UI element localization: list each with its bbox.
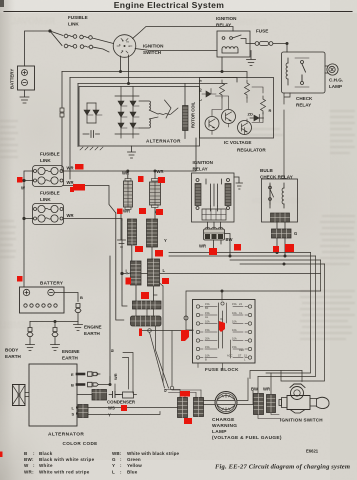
earth branch wire	[30, 322, 78, 328]
wire L net (y273.5)	[142, 273, 321, 275]
IC voltage regulator box	[200, 78, 274, 139]
svg-text:ACC: ACC	[227, 354, 233, 358]
connector E	[178, 398, 188, 418]
fusible link F2a	[50, 31, 77, 48]
svg-text:IC VOLTAGE: IC VOLTAGE	[224, 140, 251, 145]
svg-text:IG: IG	[199, 88, 203, 92]
svg-text:FUSIBLE: FUSIBLE	[40, 191, 60, 196]
ghost print-through texture (decorative)	[0, 16, 300, 330]
wire B bottom down	[154, 208, 156, 220]
svg-text:S: S	[72, 412, 75, 417]
wire L junction to connector G	[122, 272, 131, 275]
svg-text:E: E	[71, 372, 74, 377]
svg-text:Green: Green	[127, 457, 141, 462]
wires ignition relay connector to bus	[214, 234, 231, 257]
svg-text:EARTH: EARTH	[5, 354, 22, 359]
svg-text:B: B	[205, 358, 207, 362]
svg-text:Y: Y	[108, 413, 111, 418]
header rule	[4, 11, 352, 13]
red mark (WR lower FL1, flag)	[70, 184, 85, 192]
svg-text:15A: 15A	[205, 302, 210, 306]
red mark (conn E top)	[180, 391, 190, 397]
red mark (BW bus)	[234, 244, 241, 251]
svg-text:10A: 10A	[232, 320, 237, 324]
wire lamp right to riser	[237, 378, 253, 405]
battery B1 (top-left)	[18, 66, 35, 90]
svg-text:AL: AL	[205, 315, 209, 319]
inline connector (body earth)	[27, 328, 33, 337]
svg-text:BODY: BODY	[5, 348, 18, 353]
lamp L2 charge warning	[215, 392, 237, 414]
centre rails	[219, 303, 223, 348]
svg-text:White with black stripe: White with black stripe	[127, 451, 180, 456]
svg-text:IGNITION SWITCH: IGNITION SWITCH	[280, 418, 323, 423]
alternator box (top)	[79, 87, 200, 147]
connector I (BW)	[254, 394, 264, 415]
red mark (fuse block left, arrow)	[181, 330, 189, 341]
pulley	[25, 393, 29, 397]
bus wire A (y71)	[62, 72, 247, 79]
bus wire L2 (y256)	[169, 255, 316, 257]
svg-text:BATTERY: BATTERY	[40, 281, 63, 286]
bus wire B (y77)	[70, 78, 237, 83]
regulator internal wires	[212, 87, 263, 135]
wire WS	[88, 407, 178, 409]
red mark (conn A bottom)	[139, 208, 146, 214]
svg-text:CHECK: CHECK	[296, 96, 313, 101]
strip connector (below G/H)	[133, 301, 162, 309]
red mark (below strip 2)	[139, 329, 142, 337]
svg-text:WB:: WB:	[112, 451, 122, 456]
wires under fuse block	[198, 364, 223, 370]
wire H to fuse-area vertical	[162, 286, 164, 382]
red mark (fuse block inner, slanted)	[219, 321, 225, 332]
svg-text:ZD: ZD	[248, 112, 253, 117]
ignition switch S1 (physical, bottom right)	[279, 384, 329, 413]
color code table left	[24, 451, 95, 474]
wire L riser (x122)	[122, 220, 127, 306]
wire WR3 (FL2 to connector)	[63, 219, 122, 221]
red mark (wires, flag)	[141, 292, 149, 299]
wire switch to ignition relay (IG)	[133, 27, 234, 39]
svg-text:REMOVAL: REMOVAL	[10, 16, 55, 26]
svg-text:20A: 20A	[205, 337, 210, 341]
svg-text:RELAY: RELAY	[296, 103, 311, 108]
svg-text:RELAY: RELAY	[216, 23, 231, 28]
ignition relay RY1 (top)	[217, 31, 250, 57]
svg-text::: :	[33, 451, 35, 456]
wire WR1 (FL1 to regulator)	[63, 138, 196, 171]
ground (ignition relay detail)	[234, 177, 243, 189]
svg-text:IGNITION: IGNITION	[216, 16, 237, 21]
ground (engine earth 2)	[51, 345, 60, 351]
condenser assembly	[92, 384, 137, 400]
svg-text:IGNITION: IGNITION	[193, 160, 214, 165]
red mark (left of battery)	[17, 276, 23, 282]
svg-text:E6621: E6621	[306, 449, 319, 454]
wire F to lamp	[204, 401, 216, 405]
svg-text:W: W	[24, 463, 29, 468]
corner wires (to alternator leads)	[123, 353, 134, 394]
red mark (conn B bottom)	[156, 209, 163, 215]
inline connector (battery earth)	[75, 304, 81, 313]
wire W down to battery	[23, 181, 25, 288]
regulator resistor R2	[245, 80, 250, 98]
ignition relay RY1 detail box	[192, 173, 235, 222]
bus wire C (y83)	[78, 83, 227, 85]
svg-text:EARTH: EARTH	[62, 356, 79, 361]
svg-text:15A: 15A	[205, 311, 210, 315]
svg-text:LINK: LINK	[40, 158, 51, 163]
inline connector (E lead)	[88, 372, 101, 377]
svg-text:IG: IG	[127, 42, 130, 44]
fusible link F1a	[50, 31, 77, 38]
svg-text::: :	[33, 463, 35, 468]
terminal circle (below strip 2)	[148, 329, 152, 333]
check relay RY2	[282, 52, 326, 93]
connector H (L)	[148, 259, 160, 286]
connector J (WR)	[267, 395, 276, 413]
svg-text:BATTERY: BATTERY	[10, 69, 15, 89]
chassis hatch on alternator bottom	[80, 147, 103, 150]
svg-text:BW:: BW:	[24, 457, 34, 462]
svg-text:WR: WR	[122, 171, 129, 176]
ground (alternator)	[128, 146, 136, 158]
wires above I/J	[258, 373, 271, 395]
node (fuse-checkrelay)	[286, 42, 288, 44]
svg-text:WARNING: WARNING	[212, 423, 237, 429]
svg-text:L: L	[112, 469, 115, 474]
rotor coil	[183, 84, 189, 139]
wires G-connector to bus	[277, 238, 285, 256]
svg-text:G: G	[294, 231, 297, 236]
svg-text:RELAY: RELAY	[193, 167, 208, 172]
bus wire L1 (y252.5)	[169, 252, 311, 254]
bulb check relay RY3	[262, 179, 298, 222]
wire B lead to riser	[98, 377, 110, 385]
svg-text:White: White	[39, 463, 53, 468]
red mark (G conn right)	[285, 244, 294, 252]
svg-text:LINK: LINK	[68, 22, 79, 27]
svg-text:CONDENSER: CONDENSER	[107, 400, 136, 405]
wire box to condenser	[77, 394, 92, 396]
svg-text:B: B	[71, 383, 74, 388]
red mark (WS condenser)	[121, 405, 127, 411]
svg-text:Y: Y	[112, 463, 115, 468]
svg-text:G: G	[112, 457, 116, 462]
svg-text:ROTOR COIL: ROTOR COIL	[191, 101, 196, 128]
svg-text:WR: WR	[113, 373, 118, 380]
svg-text:WR: WR	[199, 244, 206, 249]
svg-text:Engine Electrical System: Engine Electrical System	[114, 0, 225, 10]
label CHARGE WARNING LAMP	[212, 417, 282, 441]
red mark (diagonal wire end)	[117, 209, 123, 215]
fusible link block FL2	[33, 204, 64, 225]
svg-text:C.H.G.: C.H.G.	[329, 78, 343, 83]
terminal E	[77, 373, 84, 376]
ground (connector area)	[118, 209, 126, 247]
svg-text:B: B	[80, 295, 83, 300]
wires above E/F	[180, 390, 201, 398]
red mark (conn A top)	[138, 176, 144, 182]
wire battery- to earth node	[54, 293, 78, 302]
svg-text:LAMP: LAMP	[212, 429, 227, 435]
svg-text:BF: BF	[205, 306, 209, 310]
svg-text:FUSIBLE: FUSIBLE	[68, 15, 88, 20]
svg-text:DESCRIPTION: DESCRIPTION	[252, 198, 300, 205]
inline connector (engine earth 2)	[52, 328, 58, 337]
svg-text:L: L	[126, 269, 129, 274]
wires G,H down to strip connector	[136, 285, 154, 302]
wire WR riser (x116)	[116, 213, 124, 320]
svg-text:ENGINE: ENGINE	[62, 349, 80, 354]
inline connector (on x62 wire)	[60, 108, 64, 117]
wire loop at switch top	[281, 371, 302, 382]
transistor T1	[205, 117, 219, 131]
svg-text:W: W	[21, 186, 25, 191]
wire WR2 (FL1 lower)	[63, 186, 116, 214]
fusible link F1b	[80, 35, 114, 43]
svg-text:15A: 15A	[232, 345, 237, 349]
wire (fuse block side drop x172)	[171, 331, 173, 386]
wire check relay down to bulb check relay	[284, 93, 290, 179]
terminal L	[77, 407, 81, 409]
regulator resistor R3	[261, 96, 266, 114]
svg-text:ALTERNATOR: ALTERNATOR	[48, 432, 84, 438]
svg-text:15A: 15A	[205, 345, 210, 349]
inline connector (x186)	[184, 316, 188, 320]
wire B top stub	[154, 171, 156, 179]
wire Y	[88, 412, 160, 415]
svg-text:R: R	[269, 108, 272, 113]
connector F	[194, 398, 204, 417]
transistor T3	[238, 121, 252, 135]
ignition switch S1 (rotary, top)	[113, 35, 136, 58]
ground (battery top)	[20, 90, 29, 103]
svg-text:ALTERNATOR: ALTERNATOR	[146, 139, 181, 144]
svg-text:L: L	[199, 99, 203, 101]
fuse value labels (left column)	[205, 302, 247, 362]
lamp CHG (charge warning)	[327, 64, 338, 75]
svg-text:FUSIBLE: FUSIBLE	[40, 152, 60, 157]
red mark (WR bus)	[209, 248, 217, 255]
svg-text:Black with white stripe: Black with white stripe	[39, 457, 95, 462]
connector C	[128, 219, 137, 245]
wires below strip connector (diagonals)	[150, 295, 169, 388]
svg-text:L: L	[163, 268, 166, 273]
svg-text:WS: WS	[108, 406, 115, 411]
inline connector (B lead)	[88, 382, 99, 387]
diode pair (neutral)	[84, 103, 102, 123]
svg-text:Y: Y	[164, 238, 167, 243]
svg-text:15A: 15A	[205, 328, 210, 332]
zener ZD	[250, 115, 264, 122]
svg-text:White with red stripe: White with red stripe	[39, 469, 90, 474]
svg-text:15A: 15A	[232, 302, 237, 306]
wire FL1 left to W node	[24, 171, 34, 181]
bus junction dots	[212, 251, 214, 253]
svg-text:BW: BW	[251, 387, 258, 392]
svg-text:WR: WR	[67, 166, 74, 171]
terminal B	[77, 383, 84, 386]
stator winding (3-phase Y)	[139, 100, 178, 128]
rectifier diode bridge	[115, 87, 139, 139]
svg-text:EARTH: EARTH	[84, 331, 101, 336]
wire B vertical (x110)	[109, 256, 111, 382]
svg-text:Fig. EE-27 Circuit diagram of: Fig. EE-27 Circuit diagram of charging s…	[215, 464, 350, 471]
transistor T2	[222, 110, 236, 124]
wire (y291 to fuse block)	[142, 291, 321, 331]
svg-text:ST: ST	[238, 354, 242, 358]
svg-text:10A: 10A	[232, 311, 237, 315]
svg-text:FUSE BLOCK: FUSE BLOCK	[205, 367, 239, 372]
svg-text:LINK: LINK	[40, 197, 51, 202]
svg-text:SWITCH: SWITCH	[143, 50, 162, 55]
connector (below ignition relay)	[204, 222, 225, 240]
connector D	[147, 219, 158, 247]
fusible link block FL1	[33, 166, 64, 187]
terminal S	[77, 413, 81, 415]
bus wire L4 (y264)	[240, 263, 325, 265]
node junction J1	[49, 30, 51, 32]
red mark (WR top FL1)	[75, 164, 84, 170]
svg-text:CHARGE: CHARGE	[212, 417, 235, 423]
red mark (conn D bottom)	[155, 250, 163, 257]
capacitor (alternator noise)	[83, 131, 100, 138]
svg-text:Black: Black	[39, 451, 53, 456]
svg-text:G: G	[163, 389, 168, 392]
svg-text:10A: 10A	[205, 320, 210, 324]
connector A (WR)	[124, 179, 133, 210]
red mark (conn E bottom)	[184, 418, 192, 424]
svg-text:WR: WR	[67, 180, 74, 185]
wire D to H	[151, 247, 153, 259]
svg-text:WR: WR	[263, 387, 270, 392]
svg-text:BULB: BULB	[260, 168, 273, 173]
svg-text:B: B	[110, 349, 115, 352]
node dots on buses	[119, 70, 121, 72]
svg-text:WR: WR	[67, 213, 74, 218]
red mark (conn C bottom)	[135, 246, 143, 252]
red mark (conn B top)	[158, 177, 165, 183]
switch drop wires	[121, 55, 129, 84]
fusible link F2b	[80, 45, 109, 52]
right column fuses	[233, 305, 252, 359]
red mark (L junction)	[126, 278, 132, 285]
red mark (left of FL1)	[17, 177, 23, 183]
svg-text:WR:: WR:	[24, 469, 34, 474]
node L junction	[121, 272, 123, 274]
alternator (lower unit)	[13, 364, 78, 426]
right-side drop wires	[258, 253, 325, 382]
svg-text:COLOR CODE: COLOR CODE	[63, 441, 98, 446]
svg-text:WR: WR	[157, 169, 164, 174]
ground (ignition relay)	[247, 51, 256, 66]
wire check relay to CHG lamp	[325, 66, 328, 73]
strip connector 2	[131, 316, 162, 326]
wire switch to relay coil	[135, 49, 217, 51]
fuse (top)	[255, 41, 273, 45]
svg-text:ENGINE: ENGINE	[84, 325, 102, 330]
wire bulb check relay to G connector	[277, 222, 285, 229]
wire C to G	[131, 245, 133, 261]
connector G (L)	[131, 261, 142, 285]
svg-text:CHECK RELAY: CHECK RELAY	[260, 175, 293, 180]
wire relay to fuse	[250, 43, 255, 45]
node	[221, 290, 223, 292]
wire battery+ to junction	[25, 31, 51, 66]
svg-text:IGNITION: IGNITION	[143, 44, 164, 49]
connector (L/S leads)	[78, 405, 88, 418]
svg-text:CL: CL	[239, 311, 243, 315]
wire A top stub	[127, 171, 129, 179]
wires between strips	[136, 309, 154, 316]
battery B1 (lower)	[20, 287, 65, 313]
fuse block FB	[193, 300, 256, 364]
bus wire L3 (y260)	[230, 259, 321, 261]
svg-text:DEF: DEF	[239, 348, 245, 352]
svg-text:LAMP: LAMP	[329, 84, 342, 89]
red mark (left margin)	[0, 452, 3, 458]
svg-text:10A: 10A	[232, 328, 237, 332]
svg-text:10A: 10A	[205, 354, 210, 358]
ground (engine earth 1)	[74, 322, 83, 331]
left column fuses	[196, 305, 217, 359]
svg-text:WR: WR	[123, 209, 130, 214]
svg-text:Blue: Blue	[127, 469, 138, 474]
wire relay coil to bus	[221, 57, 223, 72]
svg-text:(VOLTAGE & FUEL GAUGE): (VOLTAGE & FUEL GAUGE)	[212, 435, 282, 441]
regulator resistor R1	[220, 80, 225, 98]
svg-text:BW: BW	[226, 237, 233, 242]
vertical wire to fusible links (left)	[62, 72, 78, 180]
regulator diode D1	[202, 89, 216, 98]
ground (body earth)	[26, 345, 35, 351]
wire fuse to check relay	[273, 44, 287, 53]
red mark (conn H right)	[162, 278, 169, 284]
connector B (WR)	[150, 179, 161, 208]
color code table right	[112, 451, 180, 474]
red mark (G conn left)	[273, 246, 279, 252]
svg-text:Yellow: Yellow	[127, 463, 142, 468]
wires below I/J to ignition switch	[258, 413, 281, 419]
wire FL2 left to W wire	[24, 218, 34, 220]
svg-text:REGULATOR: REGULATOR	[237, 148, 266, 153]
node W	[23, 179, 25, 181]
svg-text:FUSE: FUSE	[256, 29, 268, 34]
connector G-wire (green)	[272, 229, 292, 238]
svg-text:B: B	[24, 451, 28, 456]
svg-text:10A: 10A	[232, 337, 237, 341]
wire fuse block left terminal	[186, 329, 193, 331]
